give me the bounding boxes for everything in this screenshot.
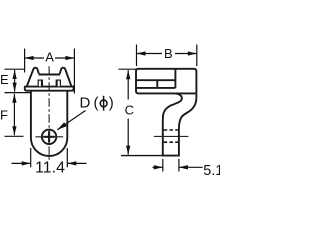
saddle flange [25, 87, 74, 91]
dim 11.4 extension left [30, 148, 32, 167]
leader to hole [57, 111, 85, 130]
stem right wall [66, 91, 68, 138]
neck right curve [179, 93, 197, 155]
hidden hole line bottom [164, 141, 179, 143]
dim C line upper [127, 70, 129, 99]
dim C top extension [119, 68, 137, 70]
right slot bar [56, 80, 61, 88]
head inner line lower [136, 87, 175, 89]
head block outline [136, 69, 196, 94]
dim 11.4 extension right [66, 148, 68, 167]
dim B extension right [196, 45, 198, 67]
svg-text:B: B [164, 46, 173, 61]
dim B extension left [136, 45, 138, 67]
dim A extension right [73, 49, 75, 94]
svg-text:): ) [109, 95, 114, 112]
left slot bar [38, 80, 43, 88]
hole crosshair [35, 136, 63, 138]
svg-text:F: F [0, 108, 8, 123]
svg-text:C: C [125, 103, 134, 118]
svg-text:(: ( [94, 95, 99, 112]
cradle floor [39, 74, 61, 76]
hole bold cross [44, 136, 55, 138]
hidden hole line top [164, 129, 179, 131]
dim E top extension [5, 68, 25, 70]
dim 5.1 left arrow [153, 166, 163, 168]
dim F bottom extension [5, 135, 24, 137]
svg-text:11.4: 11.4 [35, 159, 65, 176]
dim A extension left [24, 49, 26, 73]
rounded bottom arc [31, 138, 67, 156]
centerline (vertical dashed) [48, 66, 50, 161]
label A [44, 51, 55, 64]
head inner line upper [136, 79, 175, 81]
dim 11.4 left arrow [12, 162, 31, 164]
right ear [60, 68, 72, 87]
saddle flange top [24, 86, 74, 88]
head inner vertical right [174, 69, 176, 88]
left ear [27, 68, 39, 87]
dim C line lower [127, 119, 129, 155]
dim B line [137, 53, 197, 55]
dim E bottom extension [5, 92, 31, 94]
baseline [121, 155, 163, 157]
hole D [42, 130, 56, 144]
neck left curve [163, 93, 182, 155]
label B [162, 47, 175, 60]
dim F line [13, 94, 15, 135]
dim 5.1 extension right [178, 159, 180, 172]
svg-text:5.1: 5.1 [203, 163, 220, 179]
stem bottom [162, 155, 180, 157]
svg-text:A: A [45, 50, 54, 65]
dim 11.4 right arrow [67, 162, 86, 164]
hole centerline horizontal [154, 135, 189, 137]
svg-text:D: D [80, 95, 91, 112]
svg-text:E: E [0, 72, 9, 87]
dim A line [25, 57, 75, 59]
stem left wall [30, 91, 32, 138]
dim E line [14, 70, 16, 92]
head inner divider [156, 80, 158, 88]
dim 5.1 extension left [162, 159, 164, 172]
dim 5.1 right arrow [179, 166, 203, 168]
